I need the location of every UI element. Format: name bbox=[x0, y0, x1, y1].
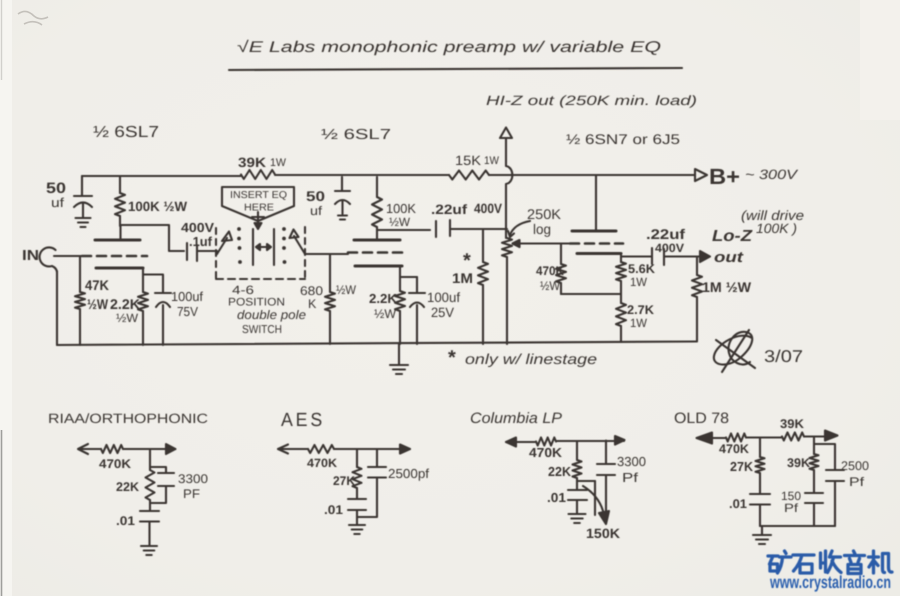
resistor 15K 1W (decoupling stage2) bbox=[449, 171, 489, 180]
switch pole A wiper bbox=[217, 238, 227, 254]
capacitor .22uf 400V (output coupling) bbox=[652, 248, 664, 265]
svg-text:HERE: HERE bbox=[244, 203, 274, 214]
EQ insert arrow bbox=[252, 212, 264, 225]
AES capacitor .01 bbox=[348, 488, 366, 517]
wire: cathode to bypass cap bbox=[143, 273, 163, 275]
svg-text:uf: uf bbox=[310, 204, 323, 218]
wire: top rail left segment bbox=[82, 175, 241, 177]
svg-text:Pf: Pf bbox=[622, 470, 638, 485]
svg-text:.01: .01 bbox=[729, 497, 747, 511]
svg-text:100uf: 100uf bbox=[171, 289, 203, 304]
svg-text:PF: PF bbox=[183, 487, 200, 501]
svg-text:½W: ½W bbox=[389, 215, 411, 229]
switch gang bars with coupling arrows bbox=[253, 229, 274, 265]
wire: .22uf to pot top node bbox=[450, 228, 507, 230]
B+ terminal arrow bbox=[695, 169, 707, 181]
Columbia resistor 470K (series) bbox=[536, 438, 556, 446]
wire: HI-Z stub with rail crossover hop bbox=[506, 138, 512, 238]
AES ground bbox=[356, 517, 358, 524]
resistor 470K 1/2W (V3 grid) bbox=[560, 244, 562, 265]
RIAA terminal line with arrows bbox=[79, 448, 166, 450]
svg-text:1W: 1W bbox=[630, 316, 648, 330]
Columbia potentiometer 150K bbox=[594, 481, 596, 515]
resistor 39K 1W (decoupling stage1) bbox=[241, 170, 275, 179]
RIAA junction drop bbox=[149, 449, 151, 470]
svg-text:3/07: 3/07 bbox=[764, 347, 803, 366]
svg-text:1M ½W: 1M ½W bbox=[702, 279, 752, 295]
svg-text:470K: 470K bbox=[529, 445, 563, 460]
ground (stage2 bus stub) bbox=[398, 344, 400, 364]
svg-text:HI-Z out (250K min. load): HI-Z out (250K min. load) bbox=[486, 93, 697, 108]
capacitor 100uf 25V (V2 cathode bypass) bbox=[409, 277, 425, 344]
AES capacitor 2500pf bbox=[357, 449, 386, 517]
switch contacts A bbox=[237, 227, 241, 231]
wire: top rail right segment to B+ bbox=[489, 174, 695, 176]
svg-text:400V: 400V bbox=[655, 241, 684, 255]
resistor 680K (V2 grid leak) bbox=[329, 254, 331, 292]
resistor 47K 1/2W (V1 grid leak) bbox=[79, 256, 81, 292]
EQ insert box INSERT EQ HERE bbox=[222, 187, 294, 221]
svg-text:SWITCH: SWITCH bbox=[242, 324, 282, 336]
capacitor 100uf 75V (V1 cathode bypass) bbox=[155, 275, 171, 345]
svg-text:100K ½W: 100K ½W bbox=[128, 199, 187, 214]
svg-text:~ 300V: ~ 300V bbox=[745, 167, 799, 182]
svg-text:*: * bbox=[448, 347, 456, 369]
watermark 矿石收音机 (blue) bbox=[768, 551, 892, 574]
wire: V3 cathode to output cap bbox=[621, 255, 652, 257]
triode V3 cathode bbox=[577, 252, 621, 255]
capacitor .22uf 400V (coupling to volume pot) bbox=[436, 220, 450, 237]
AES terminal line with arrows bbox=[278, 448, 410, 450]
svg-text:½W: ½W bbox=[374, 307, 396, 321]
rotary switch enclosure (dashed) bbox=[215, 228, 217, 278]
svg-text:OLD 78: OLD 78 bbox=[674, 410, 729, 427]
capacitor 50uf (B+ filter stage2) bbox=[335, 177, 350, 214]
triode V3 plate bbox=[572, 230, 616, 233]
svg-text:1W: 1W bbox=[270, 157, 287, 169]
OLD78 resistor 39K (series) bbox=[782, 433, 804, 441]
svg-text:Pf: Pf bbox=[849, 475, 865, 489]
resistor 2.7K 1W (V3 cathode lower) bbox=[616, 303, 626, 326]
svg-text:100K: 100K bbox=[386, 201, 416, 216]
svg-text:100uf: 100uf bbox=[427, 290, 460, 305]
svg-text:2.2K: 2.2K bbox=[110, 296, 140, 312]
svg-text:15K: 15K bbox=[455, 153, 481, 168]
AES resistor 470K (series) bbox=[308, 445, 334, 453]
resistor 2.2K 1/2W (V1 cathode) bbox=[142, 274, 144, 292]
wire: switch pole B to V2 grid bbox=[305, 253, 348, 255]
svg-text:INSERT EQ: INSERT EQ bbox=[230, 190, 287, 201]
RIAA ground bbox=[141, 546, 157, 555]
RIAA resistor 22K bbox=[146, 470, 155, 500]
triode V3 grid (dashed) bbox=[570, 242, 623, 245]
wire: V1 plate node to coupling cap bbox=[120, 225, 184, 251]
OLD78 resistor 470K (series) bbox=[726, 434, 746, 442]
wire: top rail mid segment bbox=[275, 174, 449, 176]
svg-text:470K: 470K bbox=[99, 457, 131, 471]
capacitor 50uf (B+ filter stage1) bbox=[74, 176, 92, 217]
triode V2 plate bbox=[354, 239, 400, 242]
svg-text:*: * bbox=[463, 250, 471, 272]
svg-text:K: K bbox=[308, 297, 317, 311]
resistor 100K 1/2W (V2 plate load) bbox=[376, 177, 378, 197]
svg-text:.01: .01 bbox=[116, 514, 135, 528]
HI-Z OUT terminal arrow bbox=[500, 128, 512, 139]
svg-text:½W: ½W bbox=[116, 311, 139, 325]
svg-text:uf: uf bbox=[51, 195, 64, 210]
svg-text:Lo-Z: Lo-Z bbox=[712, 228, 753, 245]
resistor 2.2K 1/2W (V2 cathode) bbox=[399, 266, 401, 291]
svg-text:4-6: 4-6 bbox=[232, 283, 254, 297]
resistor 1M (* only w/ linestage) bbox=[482, 229, 484, 262]
svg-text:½W: ½W bbox=[336, 283, 356, 297]
svg-text:2.2K: 2.2K bbox=[369, 291, 398, 306]
svg-text:22K: 22K bbox=[548, 464, 572, 479]
Columbia capacitor 3300Pf bbox=[597, 441, 615, 519]
switch pole B wiper bbox=[294, 236, 305, 254]
svg-text:3300: 3300 bbox=[178, 472, 208, 486]
svg-text:log: log bbox=[533, 221, 551, 237]
svg-text:.22uf: .22uf bbox=[646, 226, 685, 242]
input jack IN bbox=[40, 247, 57, 272]
wire: V2 cathode to bypass cap bbox=[400, 276, 417, 278]
OLD78 resistor 39K (shunt) bbox=[813, 437, 815, 455]
svg-text:39K: 39K bbox=[238, 155, 266, 170]
AES resistor 27K bbox=[356, 449, 358, 467]
OLD78 resistor 27K bbox=[759, 438, 761, 457]
svg-text:400V: 400V bbox=[181, 220, 214, 235]
ground (50uf stage2) bbox=[338, 216, 347, 220]
svg-text:B+: B+ bbox=[709, 164, 740, 189]
Columbia capacitor .01 bbox=[568, 481, 587, 513]
svg-text:39K: 39K bbox=[787, 456, 810, 470]
svg-text:470K: 470K bbox=[307, 456, 337, 470]
svg-text:double pole: double pole bbox=[237, 308, 306, 322]
svg-text:75V: 75V bbox=[177, 304, 198, 319]
signature doodle bbox=[714, 332, 752, 365]
svg-text:out: out bbox=[714, 249, 744, 266]
RIAA capacitor .01 bbox=[140, 500, 159, 545]
OLD78 capacitor 150Pf bbox=[805, 470, 823, 526]
svg-text:27K: 27K bbox=[730, 459, 754, 474]
svg-text:50: 50 bbox=[306, 188, 325, 204]
Columbia resistor 22K bbox=[576, 442, 578, 461]
svg-text:only w/ linestage: only w/ linestage bbox=[465, 352, 597, 368]
ground (50uf stage1) bbox=[76, 218, 91, 227]
OLD78 capacitor .01 bbox=[750, 473, 770, 526]
svg-text:.1uf: .1uf bbox=[189, 234, 213, 249]
svg-text:3300: 3300 bbox=[617, 454, 646, 469]
svg-text:.22uf: .22uf bbox=[431, 202, 468, 217]
svg-text:2500: 2500 bbox=[841, 459, 869, 473]
resistor 100K 1/2W (V1 plate load) bbox=[119, 176, 121, 193]
svg-text:150K: 150K bbox=[586, 526, 620, 541]
svg-text:.01: .01 bbox=[547, 490, 566, 505]
wire: ground bus (bottom rail) bbox=[57, 342, 697, 346]
svg-text:39K: 39K bbox=[780, 417, 804, 431]
triode V1 grid (dashed) bbox=[82, 255, 147, 258]
svg-text:½W: ½W bbox=[87, 296, 109, 312]
svg-text:2.7K: 2.7K bbox=[627, 303, 654, 317]
svg-text:5.6K: 5.6K bbox=[628, 262, 655, 276]
svg-text:250K: 250K bbox=[527, 206, 562, 222]
triode V2 grid (dashed) bbox=[348, 251, 406, 254]
OLD78 capacitor 2500Pf bbox=[814, 444, 844, 526]
potentiometer 250K wiper bbox=[513, 240, 520, 247]
wire: V1 plate lead bbox=[119, 226, 121, 239]
resistor 5.6K 1W (V3 cathode upper) bbox=[620, 254, 622, 263]
switch contacts B bbox=[282, 227, 286, 231]
wire: V1 cathode lead bbox=[142, 268, 144, 274]
svg-text:100K ): 100K ) bbox=[756, 221, 797, 236]
title underline bbox=[229, 68, 682, 70]
svg-text:1W: 1W bbox=[630, 275, 648, 289]
wire: V2 plate node to .22uf bbox=[377, 229, 430, 231]
RIAA capacitor 3300PF (parallel bracket) bbox=[150, 467, 174, 503]
svg-text:470K: 470K bbox=[719, 442, 749, 456]
svg-text:½ 6SL7: ½ 6SL7 bbox=[93, 124, 159, 141]
svg-text:½W: ½W bbox=[540, 279, 560, 293]
triode V1 plate bbox=[95, 239, 140, 242]
svg-text:1W: 1W bbox=[484, 155, 500, 167]
wire: 470K bottom to cathode divider junction bbox=[561, 293, 621, 295]
OLD78 ground bbox=[761, 526, 763, 534]
svg-text:Pf: Pf bbox=[784, 501, 799, 515]
resistor 1M 1/2W (output load) bbox=[696, 257, 698, 276]
svg-text:RIAA/ORTHOPHONIC: RIAA/ORTHOPHONIC bbox=[48, 411, 208, 426]
svg-text:47K: 47K bbox=[85, 277, 109, 293]
svg-text:√E Labs monophonic preamp w: √E Labs monophonic preamp w/ variable EQ bbox=[237, 39, 661, 56]
svg-text:www.crystalradio.cn: www.crystalradio.cn bbox=[769, 572, 891, 592]
svg-text:POSITION: POSITION bbox=[228, 297, 285, 309]
wire: jack tip to V1 grid bbox=[54, 255, 82, 257]
triode V2 cathode bbox=[355, 265, 402, 268]
capacitor .1uf 400V (interstage coupling) bbox=[187, 243, 197, 261]
wire: cap to switch pole A bbox=[197, 251, 217, 254]
wire: jack sleeve drop to ground bus bbox=[56, 271, 58, 345]
Columbia terminal line with arrows bbox=[506, 441, 624, 442]
svg-text:IN: IN bbox=[22, 248, 39, 264]
Columbia wire to 150K pot bbox=[577, 480, 595, 482]
svg-text:2500pf: 2500pf bbox=[388, 466, 429, 481]
svg-text:½ 6SN7 or 6J5: ½ 6SN7 or 6J5 bbox=[566, 131, 680, 147]
Columbia ground bbox=[569, 514, 586, 523]
svg-text:27K: 27K bbox=[333, 474, 355, 488]
RIAA resistor 470K (series) bbox=[101, 445, 123, 453]
OLD78 terminal line with arrows bbox=[710, 437, 825, 439]
svg-text:25V: 25V bbox=[431, 305, 454, 320]
triode V1 cathode bbox=[96, 267, 143, 270]
svg-text:400V: 400V bbox=[474, 201, 502, 216]
wire: V3 plate lead from rail bbox=[595, 176, 597, 230]
wire: output cap to OUT arrow bbox=[664, 255, 700, 257]
svg-text:Columbia LP: Columbia LP bbox=[470, 410, 562, 427]
svg-text:.01: .01 bbox=[324, 503, 343, 517]
OLD78 bottom bus bbox=[760, 525, 835, 527]
LO-Z OUT terminal arrow bbox=[700, 251, 710, 262]
svg-text:1M: 1M bbox=[452, 270, 473, 286]
svg-text:680: 680 bbox=[300, 284, 323, 298]
svg-text:22K: 22K bbox=[116, 480, 139, 494]
svg-text:½ 6SL7: ½ 6SL7 bbox=[321, 127, 391, 143]
potentiometer 250K log element bbox=[502, 238, 512, 257]
svg-text:470K: 470K bbox=[536, 264, 564, 278]
svg-text:AES: AES bbox=[281, 410, 325, 431]
